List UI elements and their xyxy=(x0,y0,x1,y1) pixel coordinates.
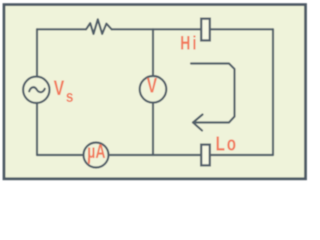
wire: top right segment xyxy=(112,28,273,30)
svg-text:Hi: Hi xyxy=(180,32,198,54)
current loop arrow xyxy=(191,64,235,123)
wire: left side xyxy=(36,29,38,155)
svg-text:V: V xyxy=(54,77,65,101)
svg-text:µA: µA xyxy=(87,141,105,163)
svg-text:s: s xyxy=(66,88,74,107)
wire: top left segment xyxy=(37,28,86,30)
resistor R xyxy=(86,19,112,34)
wire: middle branch xyxy=(152,29,154,155)
source Vs circle xyxy=(23,77,49,103)
voltmeter V circle xyxy=(140,76,167,103)
terminal Lo rect xyxy=(201,145,210,166)
arrowhead xyxy=(193,115,203,131)
panel background with border xyxy=(4,5,306,179)
mu descender tail xyxy=(88,158,90,164)
svg-text:V: V xyxy=(147,73,158,97)
wire: bottom xyxy=(37,154,273,156)
ammeter uA circle xyxy=(84,143,109,168)
svg-text:Lo: Lo xyxy=(216,132,238,155)
sine symbol xyxy=(29,87,45,92)
terminal Hi rect xyxy=(201,19,210,41)
wire: right side xyxy=(272,29,274,155)
